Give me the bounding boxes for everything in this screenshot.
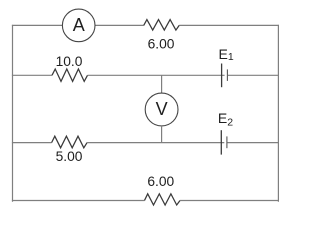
wire voltmeter bottom stub: [161, 126, 163, 143]
wire bottom rail left segment: [12, 199, 145, 201]
wire rail2 left segment: [12, 74, 52, 76]
voltmeter V: [145, 93, 178, 126]
svg-text:6.00: 6.00: [147, 174, 174, 189]
battery E2: [221, 130, 227, 154]
resistor R3 (5.00): [52, 136, 88, 148]
svg-text:5.00: 5.00: [56, 149, 83, 164]
svg-text:E1: E1: [219, 46, 234, 63]
svg-text:6.00: 6.00: [148, 37, 175, 52]
resistor R2 (10.0): [52, 69, 88, 81]
wire top rail right segment: [179, 24, 279, 26]
svg-text:10.0: 10.0: [56, 54, 83, 69]
svg-text:V: V: [156, 99, 168, 119]
wire voltmeter top stub: [161, 75, 163, 93]
battery E1: [222, 64, 228, 88]
ammeter A: [62, 9, 95, 42]
svg-text:A: A: [73, 15, 85, 35]
wire rail3 left segment: [12, 142, 52, 144]
svg-text:E2: E2: [218, 110, 233, 128]
wire rail2 middle segment: [88, 74, 225, 76]
wire rail3 middle segment: [87, 142, 224, 144]
resistor R4 (bottom, 6.00): [145, 194, 181, 205]
wire top rail left segment: [12, 24, 63, 26]
wire bottom rail right segment: [180, 199, 279, 201]
wire rail2 right segment: [228, 74, 279, 76]
wire top rail middle segment: [95, 24, 144, 26]
wire rail3 right segment: [228, 142, 280, 144]
wire right rail: [277, 25, 279, 202]
resistor R1 (top, 6.00): [144, 20, 180, 31]
wire left rail: [12, 25, 14, 202]
